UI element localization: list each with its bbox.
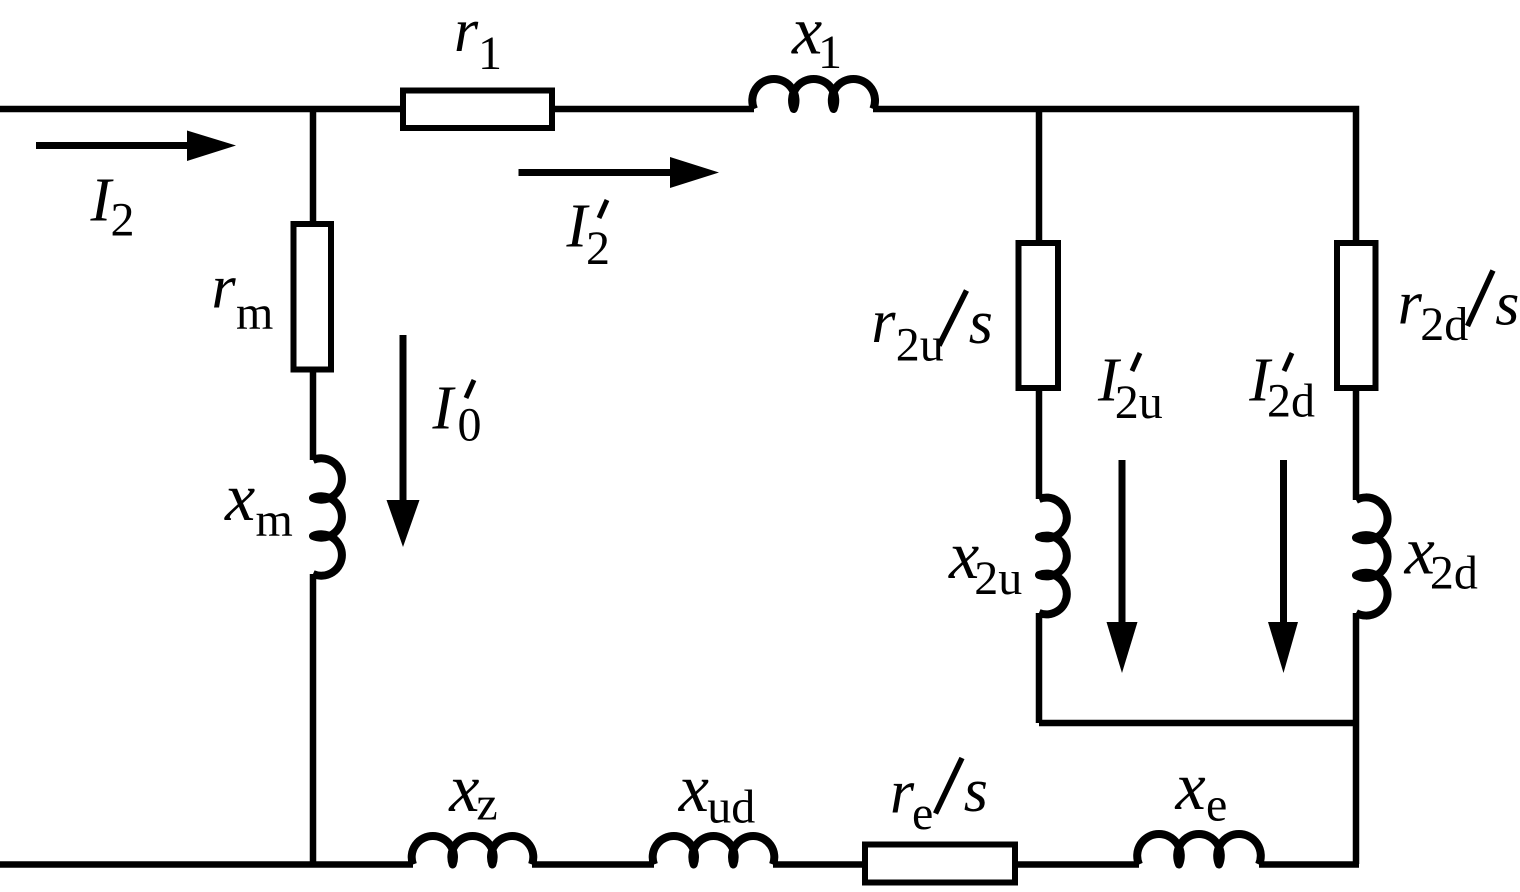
svg-text:2d: 2d: [1430, 547, 1478, 600]
svg-text:r: r: [212, 254, 237, 322]
wire left shunt branch upper: [310, 109, 317, 224]
svg-text:ud: ud: [707, 781, 755, 834]
label I2: [90, 167, 135, 247]
svg-text:2: 2: [586, 222, 610, 275]
wire left branch lower (xm to bottom wire): [310, 574, 317, 864]
wire junction branch down to r2u: [1036, 109, 1043, 243]
wire bottom right of xe: [1259, 861, 1359, 868]
wire left branch between rm and xm: [310, 369, 317, 460]
svg-text:x: x: [678, 750, 709, 826]
svg-text:e: e: [1206, 779, 1227, 832]
label r2u/s: [871, 288, 993, 372]
label rm: [212, 254, 274, 340]
resistor r2u/s: [1019, 243, 1059, 388]
wire top right with corner into right branch: [873, 109, 1356, 240]
svg-text:2d: 2d: [1267, 375, 1315, 428]
label x1: [791, 0, 842, 79]
svg-text:2d: 2d: [1420, 298, 1468, 351]
arrow I2': [519, 157, 720, 188]
label x2d: [1404, 513, 1478, 600]
inductor xud: [653, 836, 775, 865]
label re/s: [890, 757, 988, 840]
inductor xz: [412, 836, 534, 865]
label xm: [224, 459, 293, 547]
wire middle horizontal: [1039, 720, 1356, 727]
svg-text:x: x: [1175, 748, 1206, 824]
svg-text:1: 1: [818, 26, 842, 79]
svg-text:r: r: [871, 288, 896, 356]
wire top middle (r1 to x1): [555, 106, 754, 113]
svg-text:m: m: [236, 287, 273, 340]
svg-text:e: e: [912, 787, 933, 840]
wire top left: [0, 106, 400, 113]
label I2u': [1097, 347, 1163, 430]
inductor x2d: [1356, 497, 1388, 615]
label I0': [432, 375, 482, 452]
wire bottom between re and xe: [1018, 861, 1139, 868]
svg-text:2u: 2u: [974, 552, 1022, 605]
svg-text:2u: 2u: [1115, 376, 1163, 429]
label I2d': [1248, 347, 1315, 428]
svg-text:s: s: [969, 289, 993, 357]
label x2u: [948, 517, 1022, 605]
wire bottom far left: [0, 861, 413, 868]
label r1: [454, 0, 502, 80]
arrow I2: [36, 131, 236, 162]
label I2': [566, 193, 611, 276]
inductor xe: [1137, 834, 1261, 864]
svg-text:s: s: [964, 757, 988, 825]
label xz: [448, 750, 498, 831]
svg-text:x: x: [448, 750, 479, 826]
resistor r2d/s: [1337, 243, 1376, 388]
wire x2d down to bottom wire: [1353, 613, 1360, 864]
wire bottom between xz and xud: [532, 861, 654, 868]
inductor x1: [752, 79, 875, 109]
svg-text:I: I: [432, 375, 457, 443]
arrow I2d': [1268, 460, 1298, 673]
svg-text:r: r: [1398, 270, 1423, 338]
resistor re/s: [865, 845, 1015, 883]
svg-text:2u: 2u: [896, 319, 944, 372]
inductor xm: [313, 458, 342, 575]
label r2d/s: [1398, 270, 1520, 352]
svg-text:z: z: [476, 778, 497, 831]
svg-text:2: 2: [111, 194, 135, 247]
inductor x2u: [1039, 498, 1067, 615]
wire x2u to middle wire: [1036, 613, 1043, 723]
arrow I2u': [1107, 460, 1138, 673]
svg-text:m: m: [256, 494, 293, 547]
svg-text:1: 1: [478, 27, 502, 80]
svg-text:r: r: [454, 0, 479, 65]
label xe: [1175, 748, 1228, 832]
svg-text:x: x: [224, 459, 255, 535]
label xud: [678, 750, 756, 834]
svg-text:0: 0: [458, 399, 482, 452]
svg-text:s: s: [1495, 271, 1519, 339]
wire r2u to x2u: [1036, 388, 1043, 499]
wire bottom between xud and re: [773, 861, 862, 868]
resistor r1: [403, 91, 552, 129]
wire r2d to x2d: [1353, 388, 1360, 500]
arrow I0': [387, 335, 420, 547]
resistor rm: [294, 224, 332, 370]
